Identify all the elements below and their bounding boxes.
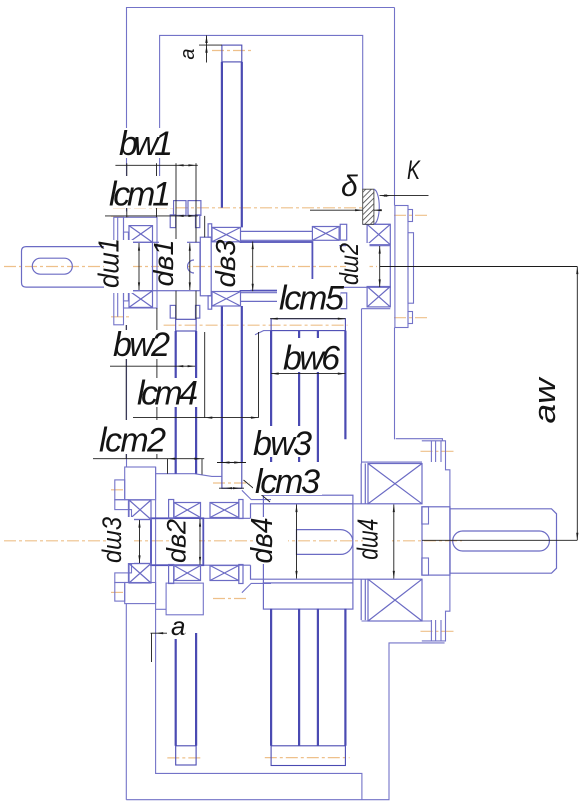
wheel2 right column <box>241 62 243 463</box>
gear dv3 OD line upper <box>241 230 313 232</box>
shaft I tab upper right <box>196 215 200 228</box>
pinion3 tooth box top <box>176 319 196 331</box>
dim delta <box>310 209 363 211</box>
svg-text:dш3: dш3 <box>97 517 127 563</box>
dim dsh2 <box>379 246 381 287</box>
arrows dsh2 <box>379 246 381 254</box>
ledge left of wheel4 tooth box <box>255 331 271 335</box>
pitch line wheel4 bottom <box>265 757 350 759</box>
shaft III journal left <box>129 520 151 564</box>
gear dv3 OD line lower <box>241 300 313 302</box>
wheel4 hub left face <box>262 504 264 583</box>
box gear2 lower right <box>210 566 239 581</box>
dim a top <box>206 35 208 62</box>
sleeve between hub and bearing upper <box>361 464 365 504</box>
dim bw3 <box>217 462 246 464</box>
sleeve between hub and bearing lower <box>361 579 365 620</box>
arrows bw1 <box>176 164 184 166</box>
housing step below bottom axis left <box>156 608 167 610</box>
boss top-left bearing <box>124 217 158 308</box>
dim lcm3 <box>219 487 244 489</box>
pinion3 columns <box>176 331 196 746</box>
bolt centerline bottom-left cover lower <box>111 591 126 593</box>
shaft I journal and pinion1 body <box>129 242 200 290</box>
bearing output upper <box>368 464 422 504</box>
dim dv1 <box>189 243 191 290</box>
arrows lcm1 <box>176 215 184 217</box>
shaft I tab lower left <box>170 305 176 318</box>
dim lcm5 <box>270 318 345 320</box>
arrows dv4 <box>295 505 297 513</box>
dim bw2 <box>110 365 195 367</box>
cover top-left bore tab upper <box>124 232 129 242</box>
housing inner bottom chamber <box>156 467 362 800</box>
bearing shaft II left lower <box>312 293 339 307</box>
arrows dv3 <box>252 242 254 250</box>
arrows lcm3 <box>224 487 232 489</box>
pitch line wheel2 top <box>212 50 252 52</box>
boss bottom-left upper block <box>125 467 156 500</box>
cover bottom-left upper plate <box>115 480 125 500</box>
bolt centerline top-right cover lower <box>394 317 429 319</box>
arrowheads <box>138 35 579 634</box>
arrows bw2 <box>176 365 184 367</box>
svg-text:δ: δ <box>341 170 358 203</box>
boss bottom-left lower block <box>125 583 156 604</box>
svg-text:lcm1: lcm1 <box>109 176 171 214</box>
shaft I tab lower right <box>196 305 200 318</box>
wheel4 gear <box>271 319 345 766</box>
bearing shaft I left lower <box>129 291 153 308</box>
dim a bottom <box>151 632 186 634</box>
hub block below gear2 <box>166 583 203 615</box>
centerline axis shaft II <box>4 540 462 542</box>
arrows lcm5 <box>270 318 278 320</box>
cover top-right bolt step upper <box>408 210 413 222</box>
dim lcm1 <box>105 215 198 217</box>
housing inner top chamber <box>160 35 363 207</box>
cover bottom-left upper step <box>115 500 129 510</box>
cover top-right boss <box>408 233 414 304</box>
shaft I input end cap <box>22 247 109 288</box>
svg-text:bw2: bw2 <box>113 326 170 364</box>
arrows bw3 <box>222 461 230 463</box>
bearing shaft I right upper <box>212 227 241 241</box>
arrows dv1 <box>189 243 191 251</box>
wheel4 tooth box top <box>271 319 345 331</box>
dim dsh3 <box>139 520 141 563</box>
svg-text:bw1: bw1 <box>119 125 173 163</box>
output cover plate <box>422 441 450 641</box>
housing bore top-right horizontals <box>363 223 391 225</box>
svg-text:lcm3: lcm3 <box>255 463 320 501</box>
ring tab shaft I upper <box>208 224 212 237</box>
shaft III section under boxes <box>203 518 250 565</box>
pinion1 end notch <box>188 260 194 273</box>
gear dv3 body <box>241 242 313 291</box>
dim bw1 <box>115 164 197 166</box>
labels horizontal <box>99 125 344 501</box>
cover top-left bore tab lower <box>124 291 129 301</box>
wheel2 tooth box bottom <box>222 463 242 489</box>
bearing shaft II left upper <box>312 227 339 241</box>
svg-text:lcm2: lcm2 <box>99 422 166 460</box>
dim dv4 <box>296 505 298 579</box>
arrows lcm4 <box>205 417 213 419</box>
pinion3 tall gear <box>176 319 196 765</box>
dim dv3 <box>252 242 254 292</box>
housing outer top and left wall <box>127 8 395 212</box>
shaft III step to dv4 <box>251 504 369 579</box>
box gear2 lower left <box>174 566 201 581</box>
dim dsh1 <box>138 243 140 290</box>
housing outer left wall middle <box>126 325 128 467</box>
bolt centerline right output cover lower <box>421 630 456 632</box>
arrows dsh3 <box>138 520 140 528</box>
wheel2 tall gear <box>222 45 242 488</box>
svg-text:bw3: bw3 <box>253 425 312 463</box>
tab gear2 right lower <box>239 565 243 584</box>
pitch line pinion1 upper <box>113 207 362 209</box>
arrows dsh4 <box>393 505 395 513</box>
svg-text:aw: aw <box>527 376 562 424</box>
housing outer right wall upper <box>394 8 396 206</box>
output cover bolt head upper <box>431 441 441 462</box>
housing step above bottom axis left <box>156 474 222 477</box>
arrows aw <box>576 267 578 275</box>
pinion1 tooth box upper <box>174 201 187 216</box>
wheel4 hub flange upper <box>263 495 353 504</box>
bolt centerline top-left cover lower <box>111 316 130 318</box>
arrows dsh1 <box>138 243 140 251</box>
bearing seat line above output bearing <box>362 461 423 463</box>
wheel4 hub flange lower <box>263 583 353 609</box>
tab gear2 left upper <box>169 500 174 519</box>
cover top-right plate <box>395 206 408 328</box>
cover bottom-left lower plate <box>115 583 125 602</box>
dim dv2 <box>199 519 201 565</box>
housing outline <box>114 8 450 800</box>
box gear2 upper left <box>174 503 201 518</box>
dim lcm4 <box>133 417 259 419</box>
shaft II journal right section <box>339 246 390 288</box>
dimension lines <box>93 35 577 662</box>
pinion3 tooth box bottom <box>176 746 196 765</box>
arrows delta <box>355 209 363 211</box>
svg-text:dв2: dв2 <box>161 519 191 563</box>
arrows a top <box>205 35 207 43</box>
wheel4 tooth box bottom <box>271 746 345 766</box>
output cover bore tab lower <box>422 558 429 575</box>
wheel2 tooth box top <box>222 45 242 62</box>
cover bottom-left lower step <box>115 573 129 583</box>
bearing shaft III left upper <box>129 500 151 520</box>
svg-text:dв4: dв4 <box>244 518 279 564</box>
bolt centerline top-right cover upper <box>394 214 429 216</box>
bearing output lower <box>368 579 422 621</box>
bolt centerline right output cover upper <box>421 450 456 452</box>
pinion1 left face <box>152 242 154 290</box>
housing outer bottom <box>126 643 444 800</box>
shafts <box>22 201 557 620</box>
housing outer left wall bottom <box>125 604 127 800</box>
centerline axis shaft I <box>4 51 462 758</box>
wheel4 hub right face <box>352 504 354 583</box>
white text masks <box>97 46 570 639</box>
wheel4 rim columns <box>271 331 345 746</box>
arrows lcm2 <box>168 458 176 460</box>
svg-text:lcm4: lcm4 <box>137 375 198 413</box>
ring tab shaft II left lower <box>340 293 347 309</box>
tab gear2 right upper <box>239 500 243 519</box>
cover top-right bolt step lower <box>408 312 413 324</box>
svg-text:dв1: dв1 <box>148 240 179 287</box>
dim bw6 <box>271 373 345 375</box>
shaft III output keyway <box>453 531 550 551</box>
cover bottom-left lower lip <box>128 564 131 573</box>
arrow K <box>380 195 388 197</box>
arrows bw6 <box>271 373 279 375</box>
cover bottom-left upper lip <box>128 510 131 520</box>
svg-text:K: K <box>407 155 421 185</box>
ring tab shaft II left upper <box>340 224 347 240</box>
housing step above output bearing <box>396 439 443 441</box>
shaft III keyway under wheel4 <box>297 530 353 555</box>
housing outer right wall middle <box>394 328 396 440</box>
gear dv2 body <box>151 518 203 565</box>
wheel2 left column <box>221 62 223 463</box>
bolt centerline top-left cover upper <box>111 215 130 217</box>
dim lcm2 <box>93 458 204 460</box>
svg-text:dш2: dш2 <box>334 243 364 285</box>
cover top-left plate <box>114 217 124 324</box>
svg-text:dш1: dш1 <box>94 238 126 288</box>
svg-text:a: a <box>171 611 185 641</box>
svg-text:bw6: bw6 <box>283 340 340 378</box>
bearing shaft III left lower <box>129 564 151 584</box>
housing step above bottom axis right <box>242 490 271 499</box>
pitch line pinion3 bottom <box>167 757 201 759</box>
shaft I input keyway <box>32 258 72 274</box>
tab gear2 left lower <box>169 565 174 584</box>
shaft I tab upper left <box>170 215 176 228</box>
bearing shaft II right upper <box>367 224 390 244</box>
bearing shaft I right lower <box>212 292 241 307</box>
pitch line gear2 lower <box>213 598 246 600</box>
box gear2 upper right <box>210 503 239 518</box>
slinger ring shaft I <box>200 237 211 296</box>
pitch line wheel2 bottom <box>213 482 250 484</box>
arrows dv2 <box>199 519 201 527</box>
adjusting washer hatch block <box>363 189 380 224</box>
shaft III section after bearing <box>422 507 450 575</box>
bearing shaft II right lower <box>367 287 390 307</box>
arrows a bottom <box>156 632 164 634</box>
housing step below bottom axis right <box>242 583 271 592</box>
dim K <box>380 195 429 197</box>
output cover bore tab upper <box>422 507 429 524</box>
svg-text:dв3: dв3 <box>210 239 241 287</box>
ring tab shaft I lower <box>208 296 212 309</box>
svg-text:a: a <box>177 48 199 59</box>
mesh pitch line middle <box>164 324 348 326</box>
bearings <box>129 224 422 621</box>
output cover bolt head lower <box>431 620 441 641</box>
dim dsh4 <box>393 505 395 579</box>
bolt centerline bottom-left cover upper <box>111 489 126 491</box>
svg-text:dш4: dш4 <box>353 519 385 560</box>
dim aw <box>380 266 578 268</box>
shaft I mid section <box>108 245 129 290</box>
housing inner right wall middle <box>361 309 363 464</box>
housing bore line below output bearing <box>362 620 432 622</box>
shaft III output end <box>450 509 557 573</box>
bearing shaft I left upper <box>129 226 153 243</box>
cover top-left inner step line <box>117 217 119 316</box>
